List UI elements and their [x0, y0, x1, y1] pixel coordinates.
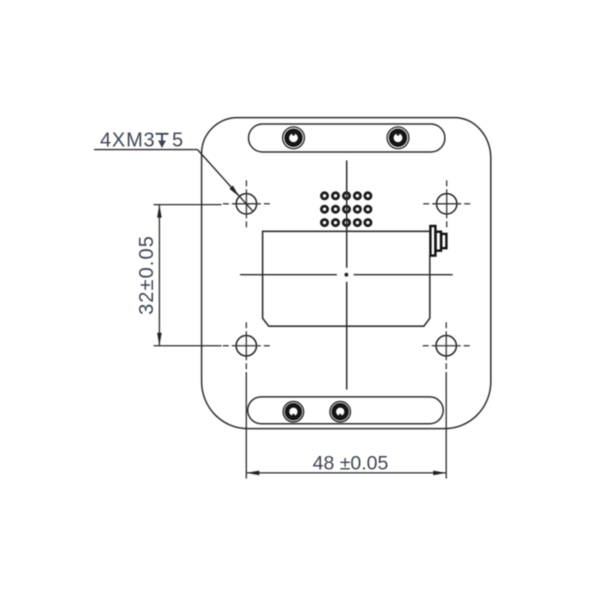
48 dimension arrow left [246, 471, 259, 476]
svg-text:5: 5 [172, 130, 183, 152]
32 dimension line [158, 205, 160, 346]
bottom screw left [283, 402, 303, 422]
32 dimension arrow up [157, 205, 162, 218]
corner hole bottom-right [423, 322, 470, 369]
48 dimension arrow right [433, 471, 446, 476]
svg-text:48 ±0.05: 48 ±0.05 [313, 453, 389, 475]
horizontal centerline [240, 274, 453, 276]
32 dimension arrow down [157, 333, 162, 346]
top mounting slot [249, 124, 445, 152]
48 dimension extension lines [246, 372, 446, 479]
top screw right [387, 127, 409, 149]
body outline (rounded plate) [202, 118, 491, 429]
leader arrowhead [229, 186, 239, 197]
48 dimension line [247, 472, 446, 474]
DC jack connector (side view, right edge) [430, 226, 446, 256]
bottom screw right [330, 402, 350, 422]
corner hole top-right [423, 180, 470, 227]
corner hole top-left [223, 180, 270, 227]
svg-text:4XM3: 4XM3 [100, 130, 155, 152]
top screw left [283, 127, 305, 149]
center mark [345, 273, 349, 277]
leader line for thread note [94, 150, 253, 211]
bottom mounting slot [248, 397, 444, 424]
32 dimension extension lines [154, 205, 222, 346]
middle rectangle (component pocket) [263, 231, 430, 326]
svg-text:32±0.05: 32±0.05 [136, 235, 158, 315]
depth symbol [156, 134, 169, 142]
corner hole bottom-left [223, 322, 270, 369]
vertical centerline [346, 160, 348, 389]
speaker hole grid (5 x 3) [321, 193, 371, 226]
